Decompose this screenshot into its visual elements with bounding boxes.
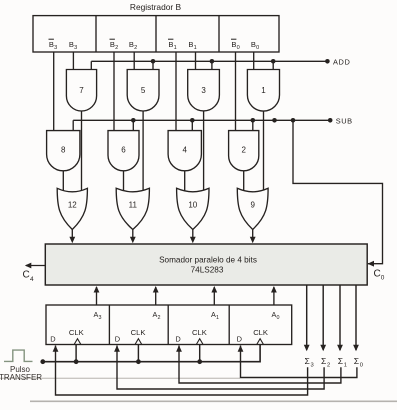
svg-text:74LS283: 74LS283 <box>191 266 224 275</box>
svg-text:11: 11 <box>129 201 138 210</box>
svg-text:CLK: CLK <box>253 328 268 337</box>
svg-text:3: 3 <box>54 45 57 51</box>
svg-text:D: D <box>50 334 55 343</box>
svg-text:3: 3 <box>311 363 314 369</box>
svg-text:8: 8 <box>61 146 66 155</box>
svg-text:0: 0 <box>256 45 259 51</box>
svg-text:1: 1 <box>174 45 177 51</box>
svg-text:2: 2 <box>115 45 118 51</box>
svg-text:4: 4 <box>30 276 34 283</box>
svg-text:1: 1 <box>194 45 197 51</box>
svg-text:2: 2 <box>241 146 246 155</box>
svg-text:CLK: CLK <box>131 328 146 337</box>
svg-text:TRANSFER: TRANSFER <box>0 373 42 382</box>
svg-text:CLK: CLK <box>69 328 84 337</box>
svg-text:7: 7 <box>79 86 84 95</box>
svg-text:Somador paralelo de 4 bits: Somador paralelo de 4 bits <box>159 256 257 265</box>
svg-text:2: 2 <box>134 45 137 51</box>
svg-text:1: 1 <box>216 315 219 321</box>
svg-text:C: C <box>374 268 381 279</box>
svg-text:0: 0 <box>237 45 240 51</box>
svg-text:SUB: SUB <box>336 116 353 125</box>
svg-text:Σ: Σ <box>354 356 359 366</box>
svg-text:Σ: Σ <box>338 356 343 366</box>
svg-text:9: 9 <box>250 201 255 210</box>
svg-text:D: D <box>175 334 180 343</box>
svg-text:3: 3 <box>99 315 102 321</box>
svg-text:2: 2 <box>327 363 330 369</box>
svg-text:D: D <box>115 334 120 343</box>
svg-text:1: 1 <box>344 363 347 369</box>
svg-text:5: 5 <box>141 86 146 95</box>
svg-text:0: 0 <box>277 315 280 321</box>
svg-text:2: 2 <box>158 315 161 321</box>
svg-text:0: 0 <box>381 274 385 281</box>
svg-text:3: 3 <box>201 86 206 95</box>
svg-text:Σ: Σ <box>321 356 326 366</box>
svg-text:3: 3 <box>74 45 77 51</box>
svg-text:CLK: CLK <box>192 328 207 337</box>
svg-text:1: 1 <box>261 86 266 95</box>
svg-text:12: 12 <box>68 201 77 210</box>
svg-text:C: C <box>23 269 30 280</box>
svg-text:ADD: ADD <box>333 57 350 66</box>
svg-text:0: 0 <box>360 363 363 369</box>
svg-text:D: D <box>237 334 242 343</box>
svg-text:Σ: Σ <box>305 356 310 366</box>
svg-text:Registrador B: Registrador B <box>130 2 182 12</box>
svg-text:6: 6 <box>121 146 126 155</box>
svg-text:10: 10 <box>188 201 197 210</box>
svg-text:4: 4 <box>183 146 188 155</box>
